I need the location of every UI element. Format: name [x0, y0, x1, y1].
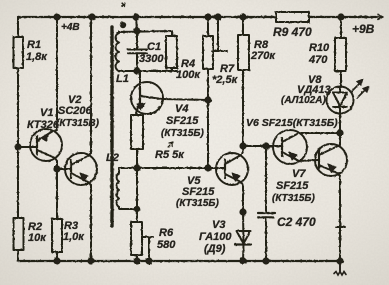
transistor V6 [273, 130, 318, 164]
node V2 collector at top rail [89, 14, 94, 19]
resistor R7 [203, 14, 213, 168]
svg-text:КТ326: КТ326 [27, 119, 60, 131]
svg-text:R9 470: R9 470 [273, 25, 312, 39]
svg-text:V1: V1 [40, 107, 53, 119]
node R3 at bottom rail [54, 258, 59, 263]
svg-text:SF215: SF215 [166, 115, 199, 127]
wire node to base V6 [243, 145, 282, 147]
svg-text:+9В: +9В [352, 22, 375, 36]
node tank top [134, 28, 139, 33]
wire tank bottom [119, 70, 177, 72]
resistor R8 [238, 14, 249, 146]
svg-text:R10: R10 [309, 42, 330, 54]
svg-text:3300: 3300 [139, 53, 164, 65]
svg-text:+4В: +4В [61, 22, 80, 33]
node V2 emitter at bottom rail [88, 258, 93, 263]
transistor V7 [315, 144, 347, 176]
wire x57 branch [56, 17, 58, 261]
supply arrow +9V [376, 15, 383, 20]
resistor R6 [131, 168, 142, 264]
wire base of V2 [57, 168, 71, 170]
transistor V4 [131, 82, 163, 115]
node base of V1 [15, 144, 20, 149]
node R9 / R10 at top rail [338, 14, 343, 19]
node x57 at top rail [54, 14, 59, 19]
resistor R9 [276, 12, 309, 22]
node LED cathode / collectors V6 V7 [337, 130, 342, 135]
svg-text:*2,5к: *2,5к [212, 74, 239, 86]
inductor L2 [117, 168, 119, 207]
node tank feed at top rail [133, 14, 138, 19]
svg-text:470: 470 [308, 54, 328, 66]
node collector V5 / R8 [240, 143, 245, 148]
diode V3 [235, 212, 251, 264]
wire tank top [119, 31, 172, 32]
transistor V1 [30, 129, 62, 161]
svg-text:V6 SF215(КТ315Б): V6 SF215(КТ315Б) [246, 117, 338, 129]
wire top rail to tank [136, 17, 137, 31]
wire collector V7 [339, 133, 341, 145]
svg-text:L1: L1 [116, 73, 129, 85]
wire collector V4 to R7 branch [162, 99, 208, 100]
svg-text:100к: 100к [176, 69, 201, 81]
wire collector V5 [242, 146, 244, 152]
node R7/base V5 junction [205, 165, 210, 170]
node R5/R6 junction [134, 165, 139, 170]
svg-text:R5 5к: R5 5к [155, 149, 185, 161]
inductor L1 [116, 32, 119, 71]
transistor V2 [65, 153, 97, 185]
trimmer arrow R5 [168, 142, 173, 147]
wire long node: L2 top / R5 / R7 / base V5 [119, 167, 225, 169]
node L2 bottom junction [135, 207, 139, 211]
capacitor C2 [258, 146, 275, 264]
svg-text:(КТ315В): (КТ315В) [56, 118, 100, 129]
wire base of V4 [139, 71, 141, 88]
svg-text:L2: L2 [106, 152, 119, 164]
transistor V5 [216, 152, 248, 185]
resistor R5 [131, 115, 143, 168]
wire emitter V7 to bottom rail [336, 176, 345, 261]
LED V8 [327, 79, 370, 133]
node V7 emitter at bottom rail [337, 258, 342, 263]
node C2 tap [263, 143, 268, 148]
svg-text:SF215: SF215 [276, 180, 309, 192]
resistor R4 [166, 31, 177, 71]
svg-text:С1: С1 [147, 41, 161, 53]
stray speck top [122, 3, 125, 7]
wire bottom common rail [18, 260, 340, 262]
svg-text:10к: 10к [28, 232, 47, 244]
node base V2 junction [54, 166, 59, 171]
svg-text:SC206: SC206 [58, 105, 93, 117]
resistor R2 [14, 218, 24, 250]
resistor R1 [14, 37, 24, 68]
svg-text:R1: R1 [27, 39, 41, 51]
svg-text:V4: V4 [175, 103, 188, 115]
resistor R10 [335, 17, 346, 87]
svg-text:270к: 270к [250, 50, 276, 62]
wire collector V6 to LED node [299, 132, 340, 134]
wiper tap R7 [212, 14, 227, 51]
node tank bottom [134, 68, 139, 73]
capacitor C1 [128, 31, 147, 71]
svg-text:(КТ315Б): (КТ315Б) [272, 193, 315, 204]
svg-text:(КТ315Б): (КТ315Б) [161, 128, 204, 139]
svg-text:SF215: SF215 [182, 186, 215, 198]
wire emitter V5 to diode [242, 185, 244, 212]
wire left vertical branch [17, 17, 19, 261]
wiper tap R6 [142, 237, 153, 264]
wire top supply rail [18, 16, 376, 18]
node V5 emitter / V3 anode [240, 209, 245, 214]
stray dot artifact [121, 23, 125, 27]
svg-text:1,8к: 1,8к [26, 51, 48, 63]
wire L2 bottom [119, 207, 137, 209]
svg-text:С2 470: С2 470 [277, 215, 316, 229]
svg-text:(КТ315Б): (КТ315Б) [176, 198, 219, 209]
svg-text:1,0к: 1,0к [63, 231, 85, 243]
resistor R3 [52, 219, 62, 252]
transformer core [110, 27, 113, 226]
svg-text:ГА100: ГА100 [199, 231, 232, 243]
wire emitter V2 to bottom rail [90, 185, 92, 261]
svg-text:(АЛ102А): (АЛ102А) [281, 95, 326, 106]
svg-text:V3: V3 [212, 219, 225, 231]
svg-text:580: 580 [157, 239, 176, 251]
wire collector V2 to top rail [90, 17, 92, 153]
svg-text:R6: R6 [159, 227, 174, 239]
svg-text:V7: V7 [292, 168, 306, 180]
tail below bottom-right rail end [334, 261, 346, 275]
svg-text:(Д9): (Д9) [204, 243, 226, 255]
